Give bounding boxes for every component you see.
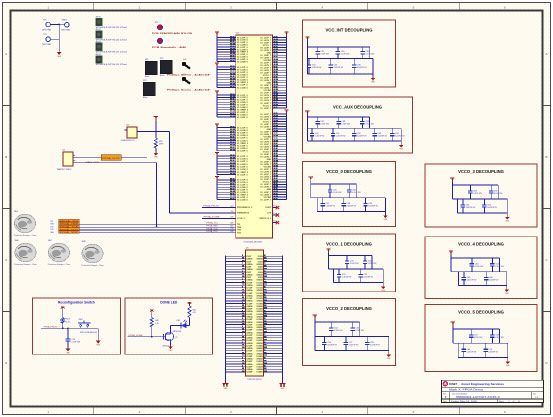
svg-text:0.1UF 16V: 0.1UF 16V <box>333 192 342 194</box>
wire mid rail <box>329 268 384 270</box>
svg-text:0.1UF 16V: 0.1UF 16V <box>365 124 374 126</box>
wire top rail drop <box>498 329 500 343</box>
capacitor C59 <box>468 185 482 199</box>
ground J26 left rail <box>222 382 228 390</box>
power rail VCCO left group 3 <box>215 91 219 96</box>
svg-text:GNDA: GNDA <box>246 321 253 324</box>
svg-text:IO_L05N_0: IO_L05N_0 <box>237 199 249 201</box>
power VCCO_3 DECOUPLING <box>450 178 454 183</box>
svg-text:Sheet: Sheet <box>499 400 504 403</box>
svg-text:CCLK_2: CCLK_2 <box>237 218 246 220</box>
wire bottom rail <box>458 285 506 287</box>
wire clock to CCLK pin <box>170 212 236 214</box>
wire power to R23 <box>62 310 64 318</box>
svg-text:0.1UF 16V: 0.1UF 16V <box>72 342 81 344</box>
wire bottom rail <box>315 350 389 352</box>
svg-text:0.1UF 16V: 0.1UF 16V <box>475 266 484 268</box>
decoupling block VCCO_4 DECOUPLING <box>425 237 537 299</box>
svg-text:Protective Bumper - Clear: Protective Bumper - Clear <box>14 263 37 266</box>
wire mid rail <box>311 197 386 199</box>
svg-text:VCCO_3 DECOUPLING: VCCO_3 DECOUPLING <box>458 169 504 174</box>
ground below Q1 <box>168 345 173 353</box>
capacitor C37 <box>315 117 329 128</box>
svg-text:Protective Bumper - Clear: Protective Bumper - Clear <box>14 234 37 237</box>
wire R40 to done net <box>151 327 153 337</box>
svg-text:GRN/LOW: GRN/LOW <box>173 331 182 333</box>
wire top rail drop <box>497 185 499 199</box>
svg-text:TDO: TDO <box>237 232 242 234</box>
wire source to ground <box>170 343 172 345</box>
svg-text:TEST PAD: TEST PAD <box>61 28 71 31</box>
wire power stem <box>450 255 452 272</box>
wire TP3 to vertical <box>50 38 59 40</box>
svg-text:PROGRAM_B_2: PROGRAM_B_2 <box>237 206 253 209</box>
svg-text:Black: Black <box>160 75 164 77</box>
svg-text:Q1: Q1 <box>175 337 178 339</box>
svg-text:0.047UF 6V: 0.047UF 6V <box>377 136 387 138</box>
wire oscillator output <box>137 131 170 133</box>
svg-text:SWITCH-PB-SMT-EVQ: SWITCH-PB-SMT-EVQ <box>80 332 98 334</box>
svg-text:0.047UF 6V: 0.047UF 6V <box>363 277 373 279</box>
power rail right group 2 <box>284 110 288 115</box>
pin wires J26 left <box>225 255 253 374</box>
capacitor C62 <box>482 199 497 213</box>
ground VCCO_2 DECOUPLING <box>386 353 391 361</box>
svg-text:Phillips Screw - 4x40x1/4": Phillips Screw - 4x40x1/4" <box>167 74 211 77</box>
svg-text:GNDA: GNDA <box>246 368 253 371</box>
wire power stem <box>306 115 308 141</box>
wire rail right group 2 <box>286 115 288 200</box>
wire rail left group 5 <box>216 157 218 175</box>
svg-text:C20: C20 <box>230 228 233 230</box>
svg-text:Date:: Date: <box>443 400 448 403</box>
svg-text:IO34N: IO34N <box>256 344 263 347</box>
svg-text:DOUT: DOUT <box>266 207 272 209</box>
svg-text:0.1UF 16V: 0.1UF 16V <box>352 192 361 194</box>
title block <box>442 380 544 403</box>
svg-text:GND1: GND1 <box>62 20 68 22</box>
wire mid rail <box>307 127 401 129</box>
power rail right group 1 <box>284 32 288 37</box>
pin wires left group 5 <box>217 154 249 176</box>
svg-text:IO_L06P_0: IO_L06P_0 <box>237 117 248 119</box>
wire power stem <box>328 253 330 269</box>
bumper MH6 <box>14 240 37 266</box>
PCB spacer SP2 <box>152 38 186 48</box>
svg-text:R40: R40 <box>155 320 158 322</box>
svg-text:0.047UF 6V: 0.047UF 6V <box>467 280 477 282</box>
svg-text:B: B <box>545 155 547 159</box>
wire mid rail <box>315 336 389 338</box>
svg-text:0.047UF 6V: 0.047UF 6V <box>349 344 359 346</box>
svg-text:P6: P6 <box>273 221 275 223</box>
wire FPGA_PROG <box>202 207 236 209</box>
svg-text:J26: J26 <box>246 247 249 249</box>
svg-text:Protective Bumper - Clear: Protective Bumper - Clear <box>48 263 71 266</box>
pin wires left group 4 <box>217 126 249 153</box>
svg-text:VCCO_5 DECOUPLING: VCCO_5 DECOUPLING <box>458 310 504 315</box>
block Reconfiguration Switch <box>32 298 120 354</box>
capacitor C67 <box>469 329 483 343</box>
power VCCO_5 DECOUPLING <box>451 322 455 327</box>
capacitor C54 <box>329 322 343 337</box>
wire bottom rail <box>307 140 401 142</box>
junction done net <box>151 336 153 338</box>
capacitor C32 <box>336 47 350 59</box>
svg-text:FPGA_DONE: FPGA_DONE <box>129 334 144 337</box>
capacitor C48 <box>341 198 356 212</box>
capacitor C69 <box>462 343 477 357</box>
power rail VCCO left group 1 <box>215 32 219 37</box>
svg-text:0.1UF 16V: 0.1UF 16V <box>366 54 375 56</box>
svg-text:PCB Standoffs - 4/40: PCB Standoffs - 4/40 <box>152 46 186 49</box>
capacitor C34 <box>307 59 322 75</box>
svg-text:D20: D20 <box>230 231 233 233</box>
rubber foot XP2 <box>160 58 172 77</box>
capacitor C38 <box>336 117 350 128</box>
bumper MH5 <box>14 211 37 237</box>
svg-text:DS1: DS1 <box>177 320 181 322</box>
svg-text:MH8: MH8 <box>82 241 86 243</box>
svg-text:R23: R23 <box>66 319 69 321</box>
svg-text:0.047UF 6V: 0.047UF 6V <box>370 344 380 346</box>
junction TCK <box>156 226 158 228</box>
capacitor C57 <box>344 337 359 351</box>
svg-text:U25: U25 <box>126 125 129 127</box>
svg-text:0.047UF 6V: 0.047UF 6V <box>368 206 378 208</box>
svg-text:0.1UF 16V: 0.1UF 16V <box>334 330 343 332</box>
ground below R25 <box>154 151 159 159</box>
wire mid drop left <box>333 269 335 283</box>
capacitor C53 <box>358 269 373 283</box>
svg-text:VCCO_4 DECOUPLING: VCCO_4 DECOUPLING <box>458 242 504 247</box>
wire J25 clock out <box>75 157 147 159</box>
pin wires left group 3 <box>217 93 249 119</box>
svg-text:T21: T21 <box>231 211 234 213</box>
wire ground drop <box>506 199 508 215</box>
svg-text:R25: R25 <box>159 141 162 143</box>
svg-text:MTGHOLE-NPTH-125 125mil: MTGHOLE-NPTH-125 125mil <box>96 64 128 66</box>
oscillator U25 <box>121 125 137 143</box>
power VCCO_4 DECOUPLING <box>449 251 453 256</box>
capacitor C58 <box>365 337 380 351</box>
svg-text:4/40: 4/40 <box>183 74 186 76</box>
svg-text:IO42N: IO42N <box>256 365 263 368</box>
power VCC_INT DECOUPLING <box>305 37 309 42</box>
svg-text:Avnet Engineering Services: Avnet Engineering Services <box>461 382 504 386</box>
capacitor C42 <box>352 128 367 141</box>
wire rail left group 4 <box>216 129 218 151</box>
svg-text:IO_L06P_0: IO_L06P_0 <box>237 151 248 153</box>
FPGA U26 body <box>236 32 273 243</box>
svg-text:GNDA: GNDA <box>246 352 253 355</box>
junction R23 node <box>62 327 64 329</box>
capacitor C44 <box>390 128 405 141</box>
svg-text:J25: J25 <box>62 150 65 152</box>
svg-text:MH5: MH5 <box>14 211 18 213</box>
wire ground drop <box>400 128 402 143</box>
wire mid drop left <box>316 198 318 212</box>
svg-text:Document Number: Document Number <box>452 392 467 395</box>
svg-text:CMPCS_B_2: CMPCS_B_2 <box>259 218 272 220</box>
resistor R40 pull-up <box>150 318 159 328</box>
transistor Q1 <box>163 332 178 348</box>
wire top rail <box>307 116 369 118</box>
ground VCCO_4 DECOUPLING <box>504 288 509 296</box>
svg-text:Rev: Rev <box>533 393 536 395</box>
svg-text:P4: P4 <box>273 206 275 208</box>
wire TP1 to node <box>50 24 59 26</box>
svg-text:TEST PAD: TEST PAD <box>42 28 52 31</box>
capacitor C66 <box>484 272 499 286</box>
svg-text:LFS: LFS <box>267 213 271 215</box>
power rail VCCO left group 4 <box>215 124 219 129</box>
wire FPGA_DONE <box>202 217 236 219</box>
svg-text:Protective Bumper - Clear: Protective Bumper - Clear <box>81 264 104 267</box>
svg-text:Phillips Screw - 4x40x1/4": Phillips Screw - 4x40x1/4" <box>167 89 211 92</box>
svg-text:FPGA_DONE: FPGA_DONE <box>204 216 221 219</box>
decoupling block VCCO_3 DECOUPLING <box>425 164 537 227</box>
svg-text:0.047UF 6V: 0.047UF 6V <box>488 351 498 353</box>
capacitor C40 <box>310 128 325 141</box>
svg-text:Reconfiguration Switch: Reconfiguration Switch <box>58 301 95 305</box>
wire ground drop <box>506 272 508 288</box>
test point TP3 <box>42 34 52 46</box>
mounting hole MTG3 <box>96 41 128 53</box>
mounting hole MTG1 <box>96 17 128 29</box>
svg-text:Black: Black <box>143 97 147 99</box>
svg-text:GNDA: GNDA <box>246 289 253 292</box>
svg-text:A: A <box>545 52 547 56</box>
svg-text:GNDA: GNDA <box>246 347 253 350</box>
no-connect pin right 3 <box>272 221 279 225</box>
switch SW1 <box>78 319 98 334</box>
wire mid rail <box>453 342 508 344</box>
ground VCCO_3 DECOUPLING <box>505 215 510 223</box>
pin wires left group 2 <box>217 65 249 89</box>
svg-text:0.1UF 16V: 0.1UF 16V <box>494 193 503 195</box>
svg-text:MTG4: MTG4 <box>96 54 101 56</box>
svg-text:0.1UF 16V: 0.1UF 16V <box>368 263 377 265</box>
JTAG net label cluster <box>50 219 79 234</box>
wire vertical to ground <box>58 25 60 51</box>
capacitor C52 <box>337 269 352 283</box>
decoupling block VCC_AUX DECOUPLING <box>303 97 413 153</box>
svg-text:0.047UF 6V: 0.047UF 6V <box>334 67 344 69</box>
capacitor C33 <box>361 47 375 59</box>
junction C16 node <box>67 327 69 329</box>
wire mid rail <box>308 58 374 60</box>
svg-text:SW1: SW1 <box>79 319 83 321</box>
capacitor C64 <box>490 258 504 272</box>
wire top rail drop <box>498 258 500 272</box>
svg-text:0.047UF 6V: 0.047UF 6V <box>327 344 337 346</box>
capacitor C35 <box>329 59 344 75</box>
svg-text:0.047UF 6V: 0.047UF 6V <box>346 206 356 208</box>
capacitor C49 <box>363 198 378 212</box>
resistor R41 <box>188 306 196 318</box>
decoupling block VCC_INT DECOUPLING <box>303 20 396 87</box>
svg-text:IO_L07P_7: IO_L07P_7 <box>261 199 272 201</box>
capacitor C55 <box>350 322 364 337</box>
wire rail left group 6 <box>216 181 218 200</box>
wire top rail drop <box>355 184 357 198</box>
wire R41 to LED <box>189 318 191 326</box>
wire power stem <box>307 41 309 74</box>
svg-text:0.1UF 16V: 0.1UF 16V <box>355 330 364 332</box>
wire done net to gate <box>128 336 164 338</box>
capacitor C41 <box>331 128 346 141</box>
power VCC_AUX DECOUPLING <box>305 111 309 116</box>
wire bottom rail <box>457 212 507 214</box>
wire top rail drop <box>369 47 371 59</box>
wire top rail <box>315 321 360 323</box>
svg-text:IO14P: IO14P <box>246 292 253 295</box>
svg-text:0.047UF 6V: 0.047UF 6V <box>357 67 367 69</box>
capacitor C65 <box>462 272 477 286</box>
svg-text:GNDA: GNDA <box>246 337 253 340</box>
wire power to resistor <box>155 121 157 138</box>
svg-text:P5: P5 <box>273 213 275 215</box>
svg-text:49R9: 49R9 <box>159 144 163 146</box>
power VCC3V3 for clock <box>154 117 158 122</box>
svg-text:VCCO_2 DECOUPLING: VCCO_2 DECOUPLING <box>326 306 372 311</box>
ground VCCO_1 DECOUPLING <box>381 285 386 293</box>
svg-text:0.1UF 16V: 0.1UF 16V <box>495 337 504 339</box>
philips screw S2 <box>181 76 192 86</box>
svg-text:0.1UF 16V: 0.1UF 16V <box>495 266 504 268</box>
wire top rail <box>329 255 373 257</box>
svg-text:GNDA: GNDA <box>246 263 253 266</box>
power in switch block <box>61 307 65 311</box>
svg-text:TSW-150-23-F-D: TSW-150-23-F-D <box>247 379 262 381</box>
wire clock vertical <box>169 132 171 213</box>
wire bottom rail <box>317 211 385 213</box>
svg-text:IO42P: IO42P <box>246 365 253 368</box>
svg-text:FPGA_PROG#: FPGA_PROG# <box>204 205 221 208</box>
wire rail left group 2 <box>216 68 218 88</box>
svg-text:GNDA: GNDA <box>246 310 253 313</box>
junction clock/power <box>155 131 157 133</box>
svg-text:MH7: MH7 <box>48 240 52 242</box>
capacitor C61 <box>461 199 476 213</box>
decoupling block VCCO_1 DECOUPLING <box>303 234 396 292</box>
svg-text:4/40: 4/40 <box>183 59 186 61</box>
svg-text:GNDA: GNDA <box>246 279 253 282</box>
wire bottom rail <box>458 357 508 359</box>
ground VCC_INT DECOUPLING <box>371 76 376 84</box>
pin wires right group 2 <box>260 112 286 201</box>
svg-text:IO_L06N_0: IO_L06N_0 <box>237 61 249 63</box>
svg-text:FPGA_TDI: FPGA_TDI <box>207 222 219 225</box>
svg-text:0.047UF 6V: 0.047UF 6V <box>312 67 322 69</box>
wire C16 lead <box>67 328 69 339</box>
capacitor C36 <box>352 59 367 75</box>
mounting hole MTG2 <box>96 29 128 41</box>
no-connect pin right 2 <box>272 213 279 217</box>
wire J26 left ground rail <box>224 256 226 382</box>
wire mid drop left <box>457 272 459 286</box>
svg-text:59000301-LAYOUT-XC3S-X: 59000301-LAYOUT-XC3S-X <box>456 396 501 399</box>
bumper MH8 <box>81 241 104 267</box>
wire rail left group 3 <box>216 96 218 118</box>
svg-text:GNDA: GNDA <box>246 284 253 287</box>
svg-text:PWRDWN_B: PWRDWN_B <box>237 213 250 215</box>
wire rail right group 1 <box>286 37 288 109</box>
capacitor C16 <box>65 339 80 347</box>
power for R40 <box>150 310 154 314</box>
wire R23 to prog net <box>62 323 64 328</box>
wire prog corner to ground <box>97 328 99 339</box>
svg-text:0.1UF 16V: 0.1UF 16V <box>350 263 359 265</box>
svg-text:VCCO_1 DECOUPLING: VCCO_1 DECOUPLING <box>326 241 372 246</box>
svg-text:FPGA_TMS: FPGA_TMS <box>207 225 219 228</box>
capacitor C31 <box>315 47 329 59</box>
svg-text:0.047UF 6V: 0.047UF 6V <box>315 136 325 138</box>
decoupling block VCCO_0 DECOUPLING <box>303 162 396 227</box>
wire J25 TCK <box>75 162 157 164</box>
svg-text:GNDA: GNDA <box>246 258 253 261</box>
svg-text:0.047UF 6V: 0.047UF 6V <box>395 136 405 138</box>
wire JTAG TCK <box>79 229 236 231</box>
power rail VCCO left group 6 <box>215 177 219 182</box>
svg-text:VCCO_0 DECOUPLING: VCCO_0 DECOUPLING <box>326 169 372 174</box>
capacitor C45 <box>328 184 342 198</box>
svg-text:0.1UF 16V: 0.1UF 16V <box>341 54 350 56</box>
svg-text:11: 11 <box>518 401 520 403</box>
svg-text:Friday, May 13, 2005: Friday, May 13, 2005 <box>451 400 477 403</box>
capacitor C63 <box>470 258 484 272</box>
pin numbers config wires <box>230 206 233 233</box>
svg-text:XC3S1000-4FG456C: XC3S1000-4FG456C <box>243 242 263 244</box>
svg-text:0.1UF 16V: 0.1UF 16V <box>341 124 350 126</box>
capacitor C50 <box>345 256 359 269</box>
wire power stem <box>451 182 453 199</box>
wire top rail drop <box>359 322 361 337</box>
wire power stem <box>452 326 454 343</box>
svg-text:GNDA: GNDA <box>246 331 253 334</box>
capacitor C47 <box>320 198 335 212</box>
bumper MH7 <box>48 240 71 266</box>
wire top rail <box>452 184 498 186</box>
PCB spacer SP1 <box>152 22 193 35</box>
no-connect pin right 1 <box>272 206 279 210</box>
svg-text:0.047UF 6V: 0.047UF 6V <box>336 136 346 138</box>
svg-text:GNDA: GNDA <box>246 326 253 329</box>
svg-text:IO44P: IO44P <box>246 371 253 374</box>
capacitor C70 <box>483 343 498 357</box>
net labels JTAG near FPGA <box>207 222 219 233</box>
svg-text:MH6: MH6 <box>15 240 19 242</box>
ground VCCO_0 DECOUPLING <box>383 214 388 222</box>
wire JTAG TDO <box>79 232 236 234</box>
capacitor C39 <box>360 117 374 128</box>
svg-text:MTG2: MTG2 <box>96 29 101 31</box>
svg-text:0.047UF 6V: 0.047UF 6V <box>487 207 497 209</box>
wire power stem <box>314 319 316 350</box>
svg-text:SG8002JF-PCC: SG8002JF-PCC <box>121 140 135 142</box>
ground VCC_AUX DECOUPLING <box>399 143 404 151</box>
svg-text:A: A <box>5 52 7 56</box>
svg-text:IO44N: IO44N <box>256 371 263 374</box>
svg-text:U26: U26 <box>236 32 239 34</box>
svg-text:IO24P: IO24P <box>246 318 253 321</box>
svg-text:R41: R41 <box>193 309 196 311</box>
philips screw S1 <box>181 61 192 71</box>
svg-text:MTG1: MTG1 <box>96 17 101 19</box>
svg-text:SAMTEC-TSW-2: SAMTEC-TSW-2 <box>57 168 71 171</box>
wire mid rail <box>451 271 507 273</box>
